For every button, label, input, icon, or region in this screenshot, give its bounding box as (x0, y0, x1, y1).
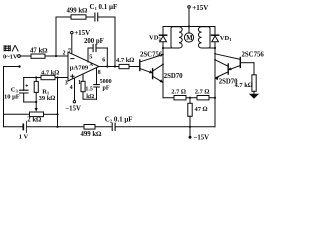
wire bottom rail right (116, 126, 215, 128)
motor M circle (184, 33, 193, 42)
op-amp pin5 stub (87, 48, 89, 62)
wire battery left (4, 126, 23, 128)
node right motor node (214, 47, 216, 49)
wire top rail left (56, 16, 71, 18)
svg-text:VD2: VD2 (149, 35, 161, 42)
resistor 4.7k base left (119, 64, 129, 68)
svg-text:1: 1 (78, 80, 81, 86)
power +15V motor dot (188, 6, 191, 8)
op-amp minus sign (71, 58, 74, 60)
capacitor C3 polarity plus (26, 85, 28, 87)
node motor top junction (188, 25, 190, 27)
wire left collector bus (162, 27, 164, 98)
node Q4 collector junction (214, 59, 216, 61)
power -15V bottom dot (189, 136, 192, 139)
node emitter right junction (214, 97, 216, 99)
resistor R1 39k (34, 81, 38, 92)
wire 4.7k right bottom (253, 91, 255, 93)
label input chinese (4, 45, 18, 51)
wire pot track left (4, 113, 30, 115)
op-amp U1 uA709 triangle (68, 52, 99, 81)
wire C3/R1 top (24, 77, 41, 79)
node wiper junction (35, 101, 37, 103)
node left motor node (162, 47, 164, 49)
resistor 47 ohm (188, 103, 192, 116)
svg-text:−15V: −15V (65, 106, 81, 113)
transistor Q2 2SD70 left base bar (152, 69, 154, 79)
wire wiper arrow shaft (35, 102, 37, 109)
svg-text:2.7 Ω: 2.7 Ω (195, 88, 210, 95)
wire 1.5k bottom (82, 92, 84, 100)
svg-text:10 μF: 10 μF (4, 93, 20, 100)
op-amp pin8 stub (96, 68, 98, 84)
wire pot track right (44, 113, 58, 115)
wire R4.7k right vertical (253, 63, 255, 75)
transistor Q2 left collector (153, 64, 163, 71)
node pot-right junction (56, 113, 58, 115)
wire battery right / bottom rail (27, 126, 84, 128)
svg-text:pF: pF (103, 85, 110, 91)
wire pin4 stub (74, 79, 76, 101)
svg-text:C2 0.1 μF: C2 0.1 μF (105, 116, 133, 124)
transistor Q1 left emitter (140, 69, 152, 73)
transistor Q1 2SC756 left base bar (139, 60, 141, 71)
svg-text:2SD70: 2SD70 (164, 73, 183, 80)
svg-text:VD1: VD1 (220, 35, 232, 42)
svg-text:+15V: +15V (192, 4, 208, 12)
inductor left field coil (171, 27, 182, 48)
svg-text:2SC756: 2SC756 (140, 51, 163, 58)
resistor 1.5k (81, 81, 85, 91)
svg-text:47 Ω: 47 Ω (195, 106, 208, 113)
svg-text:4.7 kΩ: 4.7 kΩ (116, 57, 134, 64)
wire pin3 vertical down (57, 78, 59, 127)
svg-text:M: M (186, 35, 193, 42)
node R1 top junction (35, 76, 37, 78)
svg-text:C1 0.1 μF: C1 0.1 μF (90, 3, 118, 11)
wire C3 bottom to wiper node (24, 101, 37, 103)
wire input+ to R 47k (20, 55, 31, 57)
capacitor C2 0.1uF (112, 123, 115, 130)
node Q3 collector junction (214, 53, 216, 55)
wire 4.7k right to junction (55, 77, 58, 79)
resistor 47k (31, 54, 45, 58)
wire feedback right vertical (114, 17, 116, 67)
wire 499k to C2 (95, 126, 111, 128)
wire C1 to right drop (98, 16, 115, 18)
resistor 4.7k pin3 (41, 75, 55, 79)
svg-text:499 kΩ: 499 kΩ (67, 8, 89, 15)
wire input- left (4, 66, 19, 68)
transistor Q1 left collector (140, 55, 163, 62)
wire Q3 base right (241, 62, 254, 64)
transistor Q4 right emitter (215, 72, 227, 78)
Q1L emitter arrowhead (149, 70, 153, 73)
wire +15V to pin7 (71, 34, 73, 54)
wire 47ohm bottom to -15V (189, 116, 191, 136)
svg-text:4.7 kΩ: 4.7 kΩ (41, 69, 59, 76)
svg-text:4: 4 (70, 85, 73, 91)
svg-text:5000: 5000 (100, 79, 112, 85)
node bottom rail junction (56, 126, 58, 128)
node IN- input terminal (18, 65, 20, 67)
wire motor top rail (163, 26, 215, 28)
svg-text:2 kΩ: 2 kΩ (27, 117, 42, 124)
Q3 emitter arrowhead (228, 67, 232, 70)
resistor 2.7 right (197, 96, 209, 100)
transistor Q3 2SC756 right base bar (239, 58, 241, 68)
capacitor 200pF right wire (96, 47, 107, 49)
capacitor C3 10uF leads (23, 78, 25, 103)
wire 4.7k to Q1 base (129, 66, 140, 68)
wire left loop vertical (3, 67, 5, 127)
power +15V opamp dot (71, 31, 74, 34)
op-amp plus sign (71, 75, 74, 78)
svg-text:5: 5 (89, 54, 92, 60)
wire 499k to C1 (86, 16, 94, 18)
svg-text:4.7 kΩ: 4.7 kΩ (235, 82, 253, 89)
transistor Q2 left emitter (153, 77, 163, 83)
wire right coil bottom (210, 47, 215, 49)
wire pin3 (58, 77, 69, 79)
resistor 499k top (71, 15, 86, 19)
wire 200pF drop to output (106, 48, 108, 67)
svg-text:47 kΩ: 47 kΩ (30, 47, 48, 54)
svg-text:2: 2 (63, 50, 66, 56)
node rail crossing junction (189, 126, 191, 128)
svg-text:200 pF: 200 pF (84, 38, 104, 45)
wire emitter resistor row (163, 97, 215, 99)
wire 47ohm top (189, 98, 191, 104)
svg-text:2SC756: 2SC756 (242, 51, 265, 58)
transistor Q4 2SD70 right base bar (227, 64, 229, 74)
wire pin1 stub (82, 74, 84, 81)
node Q2L collector junction (162, 63, 164, 65)
svg-text:+15V: +15V (74, 29, 90, 37)
svg-text:−15V: −15V (194, 135, 210, 142)
capacitor 200pF plates (93, 44, 96, 51)
svg-text:kΩ: kΩ (86, 94, 94, 100)
inductor right field coil (198, 27, 210, 48)
node Q1L collector junction (162, 54, 164, 56)
svg-text:7: 7 (68, 48, 71, 54)
svg-text:μA709: μA709 (70, 65, 89, 72)
node IN+ input terminal (18, 55, 21, 58)
node pin3 junction (56, 76, 58, 78)
power -15V opamp dot (73, 101, 75, 103)
node emitter center junction (189, 97, 191, 99)
wiper arrowhead (35, 108, 38, 112)
Q4 emitter arrowhead (215, 77, 219, 80)
svg-text:2.7 Ω: 2.7 Ω (171, 88, 186, 95)
ground symbol (249, 94, 259, 99)
wire R1 top stub (35, 78, 37, 82)
Q2L emitter arrowhead (160, 79, 164, 83)
capacitor 5000pF bottom lead (96, 87, 98, 99)
capacitor C1 0.1uF (95, 13, 98, 21)
svg-text:A: A (89, 63, 93, 68)
capacitor 5000pF plates (94, 85, 100, 87)
svg-text:39 kΩ: 39 kΩ (39, 95, 56, 102)
node output-feedback junction (114, 65, 116, 67)
diode VD2 (160, 36, 167, 42)
svg-text:6: 6 (102, 58, 105, 64)
wire 47k to pin2 (45, 55, 68, 57)
svg-text:8: 8 (98, 70, 101, 76)
wire 5000pF to 1.5k (83, 98, 97, 100)
battery 1V positive plate (25, 121, 27, 132)
svg-text:1.5: 1.5 (85, 86, 93, 92)
transistor Q3 right collector (215, 54, 240, 60)
wire R1 bottom (35, 92, 37, 102)
motor M lead (188, 27, 190, 33)
svg-text:0~1V: 0~1V (3, 54, 18, 61)
wire left coil bottom (163, 47, 171, 49)
transistor Q4 right collector (215, 60, 228, 66)
potentiometer 2k box (30, 112, 44, 117)
wire feedback left vertical (55, 17, 57, 56)
resistor 499k bottom (84, 125, 95, 130)
node pin2 feedback junction (55, 55, 57, 57)
battery 1V negative plate (22, 124, 24, 129)
diode VD1 (212, 36, 219, 42)
resistor 4.7k right (252, 75, 256, 92)
node 200pF output junction (106, 65, 108, 67)
capacitor C3 plates (20, 90, 28, 93)
svg-text:1 V: 1 V (19, 134, 29, 141)
wire output pin6 (99, 66, 119, 68)
wire +15V down (188, 8, 190, 26)
wire right collector bus (214, 27, 216, 127)
resistor 2.7 left (174, 96, 186, 100)
svg-text:3: 3 (65, 81, 68, 87)
svg-text:499 kΩ: 499 kΩ (81, 131, 103, 138)
capacitor 200pF left wire (88, 47, 93, 49)
transistor Q3 right emitter (229, 66, 240, 70)
